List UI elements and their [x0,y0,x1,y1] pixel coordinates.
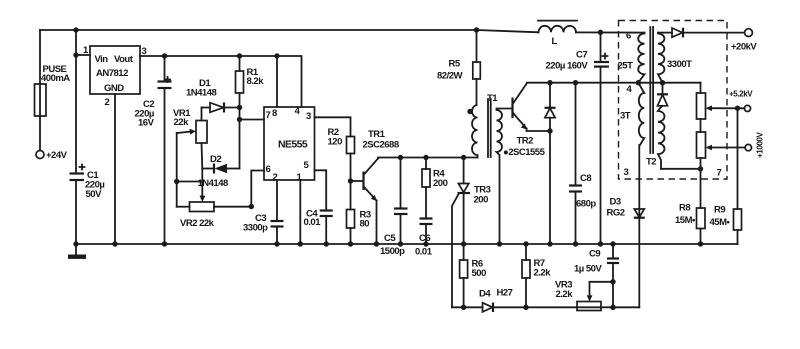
svg-text:TR1: TR1 [368,129,386,140]
capacitor C5 1500p [400,158,402,209]
svg-text:500: 500 [472,268,487,279]
resistor R6 500 [463,244,465,260]
resistor R5 82/2W [474,27,479,32]
node junction top bus at C1 branch [73,27,78,32]
svg-text:+24V: +24V [46,150,68,161]
wire collector rail to T1 primary [378,158,478,159]
terminal +5.2kV [744,105,750,111]
node junction VR1 wiper net [174,179,179,184]
diode D2 1N4148 [202,168,214,170]
capacitor C1 [70,172,85,174]
svg-text:82/2W: 82/2W [437,71,462,82]
svg-text:T1: T1 [487,93,498,104]
svg-text:●2SC1555: ●2SC1555 [503,147,546,158]
wire pin 3 drop through D3 to rail [638,145,640,307]
svg-text:3: 3 [624,167,629,178]
diode HV tap rectifier [657,93,668,95]
node junction HV diode tap [660,80,665,85]
svg-text:3T: 3T [620,111,631,122]
capacitor C3 3300p [276,180,278,221]
node junction pin 8 [274,53,279,58]
node junction pin 7 [237,117,242,122]
svg-text:R5: R5 [449,59,461,70]
node junction R4 top [423,155,428,160]
diode D3 RG2 [634,209,644,217]
svg-text:6: 6 [626,31,631,42]
wire top bus right of L [576,31,645,33]
svg-text:0.01: 0.01 [415,247,433,258]
svg-text:R8: R8 [679,203,690,214]
wire pin 8 drop [276,56,278,107]
wire +5.2kV tap [708,107,745,109]
svg-text:200: 200 [474,195,489,206]
svg-text:3: 3 [306,111,311,122]
wire pin 7 line [661,168,701,170]
capacitor C2 [164,56,166,82]
node junction D1 cathode [237,105,242,110]
resistor R7 2.2k [525,244,527,260]
T2 core [649,27,651,153]
svg-text:16V: 16V [138,118,155,129]
wire NE555 pin 3 output to R2 [315,117,351,136]
wire lower rail left [452,306,483,308]
svg-text:7: 7 [717,168,722,179]
resistor divider lower [697,132,706,158]
svg-text:C8: C8 [580,173,591,184]
node junction pin1 tap [73,52,78,57]
terminal +20kV [745,29,753,37]
svg-text:680p: 680p [576,199,596,210]
terminal +24V [36,151,44,159]
resistor R4 200 [425,158,427,170]
potentiometer VR3 2.2k [577,302,601,311]
svg-text:GND: GND [104,83,124,94]
transformer T2 3300T winding upper [658,33,664,83]
wire R8 feed [700,169,702,208]
wire HV output top [658,32,672,34]
svg-text:45M•: 45M• [710,217,731,228]
wire VR1 bottom to VR2 wiper [201,169,203,198]
diode D1 1N4148 [202,107,211,109]
svg-text:TR2: TR2 [517,136,534,147]
diode damper across TR2 [549,83,551,108]
transistor TR2 2SC1555 [511,98,513,119]
transformer T2 3300T winding lower [658,107,665,169]
svg-text:C9: C9 [589,249,600,260]
wire +24V input drop [39,30,41,84]
svg-text:+5.2kV: +5.2kV [729,90,753,99]
svg-text:50V: 50V [86,189,103,200]
svg-text:400mA: 400mA [41,73,70,84]
flyback T2 dashed enclosure [619,21,728,180]
diode HV 20kV rectifier [672,28,683,37]
node junction C8 top [573,80,578,85]
svg-text:6: 6 [266,164,271,175]
node junction TR1 base [348,178,353,183]
op-amp U2 timer NE555 [264,107,315,180]
wire ground bus [76,243,738,245]
svg-text:Vout: Vout [114,54,134,65]
wire +1000V tap [708,147,745,149]
transformer T2 25T winding [638,33,644,83]
svg-text:22k: 22k [174,117,190,128]
svg-text:200: 200 [433,178,448,189]
capacitor C6 0.01 [420,217,433,219]
transformer T2 3T winding [638,83,644,146]
svg-text:7: 7 [266,110,271,121]
node junction C1 ground [73,241,78,246]
svg-text:1500p: 1500p [380,246,405,257]
svg-text:3300T: 3300T [667,59,692,70]
node junction C2 [162,53,167,58]
node junction TR3 anode [461,155,466,160]
node junction pin 6 [249,204,254,209]
inductor L [539,26,577,33]
wire regulator GND to ground bus [114,94,116,244]
resistor R9 45M [734,209,742,230]
node junction damper diode top [547,80,552,85]
svg-text:VR2 22k: VR2 22k [180,218,215,229]
capacitor C8 680p [575,83,577,186]
svg-text:T2: T2 [646,157,656,168]
ground [75,244,77,254]
potentiometer VR1 22k [201,108,203,121]
capacitor C4 0.01 [315,170,327,210]
potentiometer VR2 22k [190,202,215,212]
terminal +1000V [745,144,751,150]
resistor divider upper [700,83,702,93]
svg-text:RG2: RG2 [607,208,625,219]
svg-text:25T: 25T [618,61,634,72]
svg-text:C6: C6 [419,233,430,244]
svg-text:1N4148: 1N4148 [186,88,216,99]
transistor TR1 2SC2688 [362,172,364,191]
diode D4 H27 [483,303,493,312]
wire to regulator pin 1 [76,54,90,56]
svg-text:2: 2 [105,97,110,108]
transformer T1 secondary winding [497,109,513,245]
wire to NE555 pin 7 [240,119,265,121]
svg-text:D4: D4 [479,289,491,300]
svg-text:2.2k: 2.2k [556,289,574,300]
T1 core [487,99,489,157]
node polarity dot T1 primary [467,109,472,114]
fuse PUSE 400mA [35,84,47,116]
wire collector line to T2 pin4 [527,82,701,84]
svg-text:1µ 50V: 1µ 50V [574,264,602,275]
wire to NE555 pin 6 [251,171,264,207]
svg-text:8.2k: 8.2k [247,76,265,87]
node junction pin 4 tap [636,80,641,85]
svg-text:Vin: Vin [95,54,109,65]
svg-text:15M•: 15M• [675,215,696,226]
svg-text:AN7812: AN7812 [96,68,128,79]
svg-text:0.01: 0.01 [304,217,322,228]
node junction C5 top [398,155,403,160]
svg-text:D3: D3 [610,197,621,208]
resistor R8 15M [697,208,706,229]
transformer T1 primary winding [472,105,478,158]
wire C1 branch vertical [75,30,77,172]
svg-text:NE555: NE555 [278,139,308,151]
wire base lead [351,180,364,182]
capacitor C7 220u 160V [598,30,603,35]
capacitor C9 1u 50V [610,241,615,246]
svg-text:R9: R9 [714,205,725,216]
wire pin 1 to ground bus [299,180,301,244]
wire top supply bus [40,30,539,32]
svg-text:80: 80 [360,219,370,230]
svg-text:+20kV: +20kV [731,42,757,53]
svg-text:C5: C5 [384,233,396,244]
node junction R1 [237,53,242,58]
svg-text:C7: C7 [576,50,587,61]
wire wiper cross link [177,181,203,183]
resistor R1 8.2k [239,56,241,71]
op-amp U1 regulator AN7812 [90,46,140,94]
svg-text:+1000V: +1000V [756,132,765,158]
svg-text:D2: D2 [210,154,221,165]
wire 12V rail from Vout [140,56,302,107]
resistor R2 120 [347,137,355,154]
svg-text:2.2k: 2.2k [534,268,552,279]
svg-text:220µ 160V: 220µ 160V [546,61,589,72]
svg-text:2SC2688: 2SC2688 [363,140,399,151]
svg-text:3300p: 3300p [243,223,268,234]
svg-text:8: 8 [272,108,277,119]
resistor R3 80 [347,210,355,229]
thyristor TR3 200 [463,158,465,184]
svg-text:L: L [552,36,558,47]
svg-text:120: 120 [328,137,343,148]
wire R9 feed from +5.2kV node [737,108,739,209]
svg-text:H27: H27 [497,288,513,299]
